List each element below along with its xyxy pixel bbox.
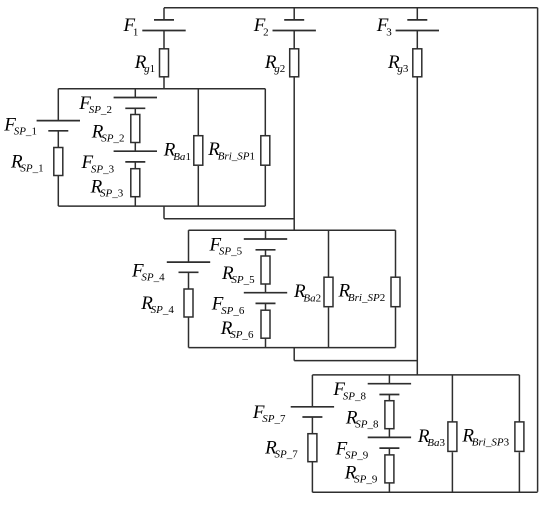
wire R_Ba3 bottom: [451, 452, 453, 492]
wire block1 bottom drop: [163, 206, 165, 219]
wire F_SP_6 to R_SP_6: [265, 303, 267, 310]
resistor R_Ba2: [324, 277, 333, 307]
battery F_SP_1: [37, 121, 80, 131]
wire Rg3 to block3: [416, 77, 418, 375]
resistor R_SP_5: [261, 256, 270, 284]
resistor R_SP_3: [131, 169, 140, 197]
wire F_SP_2 to R_SP_2: [134, 108, 136, 114]
resistor R_Bri_SP2: [391, 277, 400, 307]
wire block2 bottom rail: [189, 347, 396, 349]
resistor Rg2: [290, 49, 299, 77]
battery F_SP_7: [291, 407, 334, 417]
wire block2 left top: [188, 230, 190, 262]
wire R_Ba3 top: [451, 375, 453, 422]
wire block2 to F3 column: [294, 360, 417, 362]
wire R_Ba1 bottom: [197, 166, 199, 206]
wire R_Bri_SP1 top: [264, 89, 266, 136]
wire F_SP_7 to R_SP_7: [311, 417, 313, 434]
wire F_SP_1 to R_SP_1: [57, 131, 59, 148]
wire F_SP_4 to R_SP_4: [188, 272, 190, 289]
wire F1 top stub: [163, 8, 165, 20]
wire block1 left top: [57, 89, 59, 121]
battery F_SP_6: [244, 293, 287, 304]
resistor R_Bri_SP3: [515, 422, 524, 452]
wire block3 middle top stub: [388, 375, 390, 384]
wire F_SP_5 to R_SP_5: [265, 250, 267, 256]
resistor R_Ba3: [448, 422, 457, 452]
wire R_Bri_SP3 top: [518, 375, 520, 422]
resistor Rg3: [413, 49, 422, 77]
wire R_SP_5 to F_SP_6: [265, 284, 267, 293]
wire block3 left top: [311, 375, 313, 407]
wire R_SP_2 to F_SP_3: [134, 143, 136, 152]
resistor R_SP_9: [385, 455, 394, 483]
wire block2 middle top stub: [265, 230, 267, 239]
wire R_SP_6 to bottom: [265, 338, 267, 347]
resistor R_Bri_SP1: [261, 136, 270, 166]
wire Rg2 to block2: [293, 77, 295, 230]
resistor R_SP_7: [308, 434, 317, 462]
battery F_SP_8: [368, 384, 411, 395]
wire top rail: [164, 7, 538, 9]
battery F_SP_9: [368, 437, 411, 448]
wire F_SP_9 to R_SP_9: [388, 448, 390, 455]
battery F1: [142, 20, 185, 31]
wire R_SP_9 to bottom: [388, 483, 390, 492]
wire right edge: [537, 8, 539, 492]
wire R_Ba1 top: [197, 89, 199, 136]
battery F3: [396, 20, 439, 31]
wire R_Ba2 top: [328, 230, 330, 277]
wire block2 top rail: [189, 229, 396, 231]
wire block3 top rail: [312, 374, 519, 376]
wire block1 middle top stub: [134, 89, 136, 98]
wire R_Bri_SP1 bottom: [264, 166, 266, 206]
resistor Rg1: [160, 49, 169, 77]
wire F2 to Rg2: [293, 31, 295, 49]
wire block1 to F2 column: [164, 218, 294, 220]
wire F_SP_8 to R_SP_8: [388, 395, 390, 401]
wire F3 top stub: [416, 8, 418, 20]
wire R_Bri_SP3 bottom: [518, 452, 520, 492]
wire R_SP_1 to bottom: [57, 176, 59, 207]
resistor R_Ba1: [194, 136, 203, 166]
wire block2 bottom drop: [293, 348, 295, 361]
wire R_SP_7 to bottom: [311, 462, 313, 493]
battery F_SP_3: [114, 151, 157, 162]
wire R_SP_3 to bottom: [134, 197, 136, 206]
wire block3 bottom rail: [312, 491, 537, 493]
battery F_SP_4: [167, 262, 210, 272]
wire F_SP_3 to R_SP_3: [134, 162, 136, 169]
wire block1 bottom rail: [58, 205, 265, 207]
resistor R_SP_1: [54, 148, 63, 176]
battery F_SP_5: [244, 239, 287, 250]
wire Rg1 to block1: [163, 77, 165, 89]
wire block1 top rail: [58, 88, 265, 90]
wire F1 to Rg1: [163, 31, 165, 49]
wire R_Ba2 bottom: [328, 308, 330, 348]
wire R_Bri_SP2 bottom: [395, 308, 397, 348]
wire F2 top stub: [293, 8, 295, 20]
resistor R_SP_6: [261, 310, 270, 338]
wire R_SP_8 to F_SP_9: [388, 429, 390, 438]
battery F2: [273, 20, 316, 31]
wire R_SP_4 to bottom: [188, 317, 190, 348]
resistor R_SP_8: [385, 401, 394, 429]
resistor R_SP_4: [184, 289, 193, 317]
wire F3 to Rg3: [416, 31, 418, 49]
resistor R_SP_2: [131, 115, 140, 143]
battery F_SP_2: [114, 98, 157, 109]
wire R_Bri_SP2 top: [395, 230, 397, 277]
